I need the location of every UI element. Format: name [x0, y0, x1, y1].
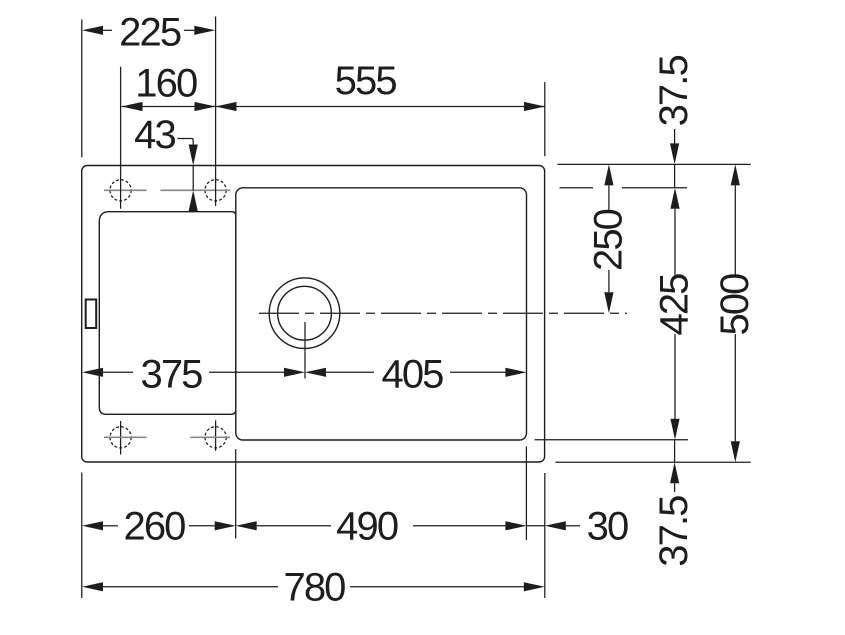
extension line bowl bottom edge to right — [535, 439, 688, 441]
extension line through top-left hole — [120, 67, 122, 209]
svg-text:160: 160 — [135, 62, 197, 106]
svg-text:250: 250 — [587, 209, 631, 271]
svg-text:780: 780 — [283, 566, 345, 610]
extension line below drain centre — [304, 322, 306, 379]
svg-text:43: 43 — [134, 113, 175, 157]
extension line sink top edge to right — [557, 163, 750, 165]
extension line left below sink — [81, 473, 83, 599]
drain centerline (dash-dot) — [259, 312, 627, 314]
drainer board outline (left compartment) — [99, 212, 236, 415]
svg-text:405: 405 — [381, 353, 443, 397]
tap hole top-left — [110, 180, 131, 201]
dimension 405 — [305, 368, 526, 377]
arrow 43 down to rim — [189, 145, 198, 166]
extension line bowl top edge to right (right piece) — [622, 187, 687, 189]
dimension 260 — [82, 521, 236, 530]
extension line sink bottom edge to right — [555, 461, 750, 463]
dimension 490 — [236, 521, 527, 530]
dimension 780 — [82, 582, 545, 591]
tap hole bottom-left vertical centerline — [120, 421, 122, 455]
dimension 500 — [731, 164, 740, 462]
svg-text:375: 375 — [140, 353, 202, 397]
svg-text:30: 30 — [587, 505, 628, 549]
svg-text:500: 500 — [713, 274, 757, 336]
dimension 225 — [82, 26, 215, 35]
tap hole bottom-right — [205, 427, 226, 448]
dimension 555 — [216, 102, 546, 111]
svg-text:37.5: 37.5 — [652, 496, 696, 567]
tap hole top-right — [205, 180, 226, 201]
dimension 37.5 top right (outside arrows) — [670, 129, 679, 188]
tap hole bottom-left — [110, 427, 131, 448]
tap hole top-left horizontal centerline — [104, 189, 147, 191]
extension line right edge below sink — [544, 473, 546, 598]
drain hole outer circle — [269, 278, 340, 349]
leader for 43 — [178, 139, 198, 212]
svg-text:490: 490 — [336, 505, 398, 549]
tap hole top-right horizontal centerline — [161, 189, 231, 191]
svg-text:225: 225 — [119, 11, 181, 55]
extension line below centre divider — [235, 449, 237, 538]
svg-text:425: 425 — [653, 274, 697, 336]
extension line below bowl right edge — [525, 447, 527, 541]
dimension 425 — [670, 188, 679, 440]
drain hole inner circle — [278, 286, 332, 340]
main bowl outline — [236, 188, 527, 440]
extension line left above sink — [81, 20, 83, 158]
svg-text:260: 260 — [123, 505, 185, 549]
svg-text:555: 555 — [335, 59, 397, 103]
dimension 30 (outside arrows) — [526, 521, 580, 530]
dimension 160 — [122, 102, 216, 111]
dimension 375 — [82, 368, 305, 377]
extension line through top-right hole — [215, 17, 217, 207]
overflow slot — [86, 300, 97, 329]
extension line bowl top edge to right (left piece) — [560, 187, 594, 189]
tap hole bottom-right horizontal centerline — [190, 436, 230, 438]
dimension 250 — [604, 164, 613, 313]
extension line right edge above sink — [544, 82, 546, 156]
dimension 37.5 bottom right (outside arrows) — [670, 440, 679, 492]
tap hole bottom-right vertical centerline — [215, 420, 217, 451]
arrow 43 up to hole axis — [189, 190, 198, 211]
tap hole bottom-left horizontal centerline — [104, 436, 147, 438]
sink outer outline — [82, 166, 545, 463]
svg-text:37.5: 37.5 — [652, 56, 696, 127]
